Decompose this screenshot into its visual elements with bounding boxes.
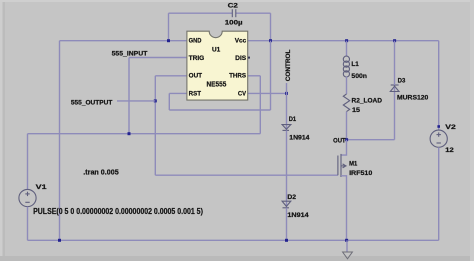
svg-text:D2: D2 <box>287 194 296 201</box>
svg-text:C2: C2 <box>228 2 239 9</box>
node junction Vcc/C2/RST return <box>269 39 272 42</box>
node junction input rail / 555_INPUT <box>128 132 131 135</box>
svg-text:V2: V2 <box>445 124 456 131</box>
wire L1 to R2 <box>346 77 348 94</box>
node junction OUT <box>345 138 348 141</box>
wire L1 top <box>346 41 348 57</box>
mosfet M1 body stub with arrow <box>341 164 347 168</box>
mosfet M1 source stub <box>341 176 347 241</box>
node junction Vcc/L1 <box>345 39 348 42</box>
wire D3 top vertical <box>394 41 396 85</box>
wire CONTROL down to D1 <box>286 93 288 130</box>
node junction GND/C2 <box>167 39 170 42</box>
resistor R2_LOAD <box>343 94 349 112</box>
wire THRS vertical to input rail <box>259 76 261 134</box>
svg-text:IRF510: IRF510 <box>349 170 373 177</box>
svg-text:OUT: OUT <box>189 73 203 80</box>
wire D2 to ground rail <box>286 208 288 241</box>
wire RST return horizontal <box>169 109 270 111</box>
wire C2 left drop to GND net <box>168 13 170 41</box>
IC U1 NE555 body <box>187 31 248 100</box>
voltage source V1 <box>19 189 36 206</box>
node junction ground/D2 <box>285 239 288 242</box>
wire RST return left vertical <box>168 93 170 110</box>
wire D3 bottom vertical <box>394 85 396 140</box>
wire R2 to OUT node <box>346 112 348 140</box>
wire CONTROL stub up <box>286 83 288 93</box>
pin DIS unconnected stub <box>248 57 250 59</box>
svg-text:D1: D1 <box>289 116 297 123</box>
diode D2 <box>282 201 291 208</box>
window top edge band <box>0 0 474 2</box>
window bottom edge band <box>0 256 474 261</box>
mosfet M1 channel bar <box>340 154 342 177</box>
wire 555_INPUT vertical <box>128 58 130 134</box>
svg-text:1N914: 1N914 <box>287 212 309 219</box>
svg-text:500n: 500n <box>351 73 367 80</box>
svg-text:555_OUTPUT: 555_OUTPUT <box>71 99 113 106</box>
svg-text:555_INPUT: 555_INPUT <box>112 50 148 57</box>
window right edge band <box>470 0 474 261</box>
svg-text:MURS120: MURS120 <box>397 94 429 101</box>
svg-text:NE555: NE555 <box>207 82 227 89</box>
wire 555_OUTPUT stub <box>117 100 155 102</box>
wire GND pin to left rail <box>60 40 188 42</box>
capacitor C2 <box>232 9 236 17</box>
wire gate line to M1 <box>155 174 338 176</box>
svg-text:15: 15 <box>352 107 360 114</box>
wire OUT node to D3 <box>347 139 395 141</box>
wire TRIG pin <box>129 57 187 59</box>
svg-text:DIS: DIS <box>235 55 247 62</box>
svg-text:M1: M1 <box>349 161 357 168</box>
svg-text:V1: V1 <box>36 184 47 191</box>
node junction Vcc/D3 <box>393 39 396 42</box>
svg-text:U1: U1 <box>212 46 221 53</box>
svg-text:12: 12 <box>445 147 454 154</box>
wire RST return right vertical to Vcc <box>270 41 272 110</box>
wire C2 top left segment <box>169 12 233 14</box>
svg-text:R2_LOAD: R2_LOAD <box>352 98 383 105</box>
wire V1 bottom vertical <box>27 207 29 241</box>
mosfet M1 drain lead <box>341 140 347 155</box>
svg-text:TRIG: TRIG <box>189 55 205 62</box>
wire C2 right drop to Vcc net <box>270 13 272 41</box>
svg-text:CONTROL: CONTROL <box>285 49 292 81</box>
diode D1 <box>282 125 291 131</box>
diode D3 <box>390 85 399 92</box>
svg-text:PULSE(0 5 0 0.00000002 0.00000: PULSE(0 5 0 0.00000002 0.00000002 0.0005… <box>33 207 203 216</box>
svg-text:1N914: 1N914 <box>289 135 310 142</box>
node V2 top pin dot <box>437 125 440 128</box>
wire CV pin <box>248 92 287 94</box>
wire input rail <box>28 133 261 135</box>
wire D1 to D2 <box>286 130 288 207</box>
svg-text:GND: GND <box>189 38 202 45</box>
wire THRS pin <box>248 75 261 77</box>
svg-text:D3: D3 <box>398 78 406 85</box>
wire RST pin <box>169 92 187 94</box>
mosfet M1 gate bar <box>337 156 339 176</box>
node junction ground/left vertical <box>58 239 61 242</box>
svg-text:THRS: THRS <box>229 73 247 80</box>
svg-text:L1: L1 <box>351 61 359 68</box>
node junction OUT/555_OUTPUT <box>154 99 157 102</box>
svg-text:.tran 0.005: .tran 0.005 <box>83 168 118 177</box>
wire V2 top vertical <box>438 41 440 130</box>
ground <box>343 252 353 259</box>
wire OUT vertical down to gate line <box>154 76 156 175</box>
wire left vertical (GND net) <box>59 41 61 241</box>
wire Vcc rail <box>248 40 439 42</box>
inductor L1 <box>343 56 349 77</box>
node junction ground/M1 source <box>345 239 348 242</box>
voltage source V2 <box>430 130 447 147</box>
svg-text:Vcc: Vcc <box>235 38 247 45</box>
node junction CV/CONTROL <box>285 92 288 95</box>
wire ground symbol stub <box>346 240 348 252</box>
svg-text:100µ: 100µ <box>225 20 243 27</box>
svg-text:RST: RST <box>189 90 201 97</box>
wire V2 bottom vertical <box>438 147 440 240</box>
wire V1 top vertical <box>27 134 29 190</box>
wire bottom ground rail <box>28 239 439 241</box>
svg-text:OUT: OUT <box>333 138 346 145</box>
wire C2 top right segment <box>236 12 271 14</box>
window left edge band <box>0 0 3 261</box>
svg-text:CV: CV <box>238 90 247 97</box>
wire OUT pin <box>155 75 187 77</box>
